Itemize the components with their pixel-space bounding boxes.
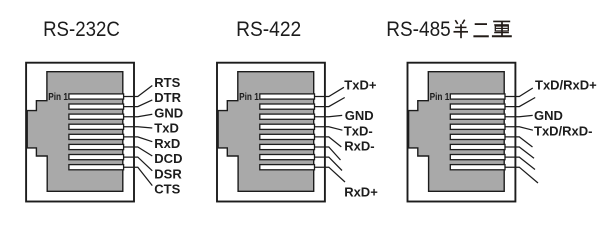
svg-text:RS-485: RS-485 [386, 16, 450, 41]
RS-422 pin 1 contact bar [260, 94, 315, 99]
RS-422 wire pin 7 [314, 157, 342, 170]
connector RS-232C jack body [27, 72, 123, 192]
svg-text:DCD: DCD [154, 151, 182, 166]
RS-422 pin 6 contact bar [260, 144, 315, 149]
title kanji JUU (fold) [492, 21, 512, 36]
svg-text:GND: GND [534, 108, 563, 123]
RS-422 pin 5 contact bar [260, 134, 315, 139]
connector RS-485 outer box [408, 63, 516, 202]
RS-232C wire pin 7 [123, 157, 152, 171]
RS-232C wire pin 3 [123, 114, 152, 117]
RS-232C wire pin 5 [123, 137, 152, 142]
RS-232C pin 2 contact bar [69, 104, 124, 109]
RS-232C pin 6 contact bar [69, 144, 124, 149]
RS-485 pin 3 contact bar [450, 114, 505, 119]
connector RS-485 jack body [409, 72, 505, 192]
svg-text:TxD-: TxD- [344, 123, 373, 138]
RS-485 wire pin 3 [505, 115, 533, 116]
svg-text:Pin 1: Pin 1 [430, 92, 450, 103]
RS-485 wire pin 5 [505, 137, 533, 147]
RS-232C wire pin 2 [123, 100, 152, 107]
RS-232C wire pin 1 [123, 86, 152, 97]
RS-422 wire pin 5 [314, 137, 341, 147]
RS-422 pin 3 contact bar [260, 114, 315, 119]
svg-text:DSR: DSR [154, 166, 182, 181]
svg-text:RTS: RTS [154, 75, 180, 90]
RS-422 wire pin 4 [314, 127, 342, 130]
svg-text:TxD/RxD+: TxD/RxD+ [535, 77, 597, 92]
RS-485 pin 1 contact bar [450, 94, 505, 99]
svg-text:GND: GND [345, 108, 374, 123]
svg-text:RxD+: RxD+ [344, 185, 378, 200]
RS-485 wire pin 1 [505, 88, 533, 97]
RS-485 pin 8 contact bar [450, 165, 505, 170]
connector RS-422 jack body [218, 72, 314, 192]
RS-485 wire pin 7 [505, 157, 535, 169]
connector RS-422 outer box [217, 63, 325, 202]
RS-422 wire pin 8 [314, 167, 345, 182]
svg-text:RxD: RxD [154, 136, 180, 151]
svg-text:CTS: CTS [154, 182, 180, 197]
RS-485 pin 5 contact bar [450, 134, 505, 139]
RS-422 wire pin 1 [314, 87, 344, 96]
RS-232C pin 3 contact bar [69, 114, 124, 119]
title kanji HAN (half) [454, 20, 469, 39]
RS-485 pin 6 contact bar [450, 144, 505, 149]
RS-422 pin 2 contact bar [260, 104, 315, 109]
title kanji NI (two) [473, 24, 488, 36]
RS-232C pin 1 contact bar [69, 94, 124, 99]
RS-232C pin 7 contact bar [69, 155, 124, 160]
svg-text:DTR: DTR [154, 90, 181, 105]
svg-text:Pin 1: Pin 1 [239, 92, 259, 103]
RS-422 wire pin 2 [314, 98, 344, 107]
RS-232C wire pin 6 [123, 147, 152, 156]
svg-text:RS-422: RS-422 [236, 16, 301, 41]
RS-485 wire pin 8 [505, 167, 538, 183]
RS-485 wire pin 2 [505, 98, 535, 107]
RS-485 pin 7 contact bar [450, 155, 505, 160]
RS-422 wire pin 3 [314, 115, 342, 116]
RS-485 pin 2 contact bar [450, 104, 505, 109]
svg-text:RxD-: RxD- [344, 139, 374, 154]
connector RS-232C outer box [26, 63, 134, 202]
svg-text:TxD+: TxD+ [344, 77, 377, 92]
RS-232C wire pin 8 [123, 167, 152, 185]
svg-text:RS-232C: RS-232C [43, 16, 120, 41]
RS-422 pin 8 contact bar [260, 165, 315, 170]
svg-text:TxD: TxD [154, 121, 179, 136]
svg-text:GND: GND [154, 105, 183, 120]
RS-422 pin 7 contact bar [260, 155, 315, 160]
RS-422 wire pin 6 [314, 147, 340, 160]
RS-485 wire pin 6 [505, 147, 534, 158]
RS-232C wire pin 4 [123, 127, 152, 128]
RS-232C pin 4 contact bar [69, 124, 124, 129]
RS-232C pin 5 contact bar [69, 134, 124, 139]
RS-485 wire pin 4 [505, 127, 533, 130]
RS-485 pin 4 contact bar [450, 124, 505, 129]
RS-422 pin 4 contact bar [260, 124, 315, 129]
RS-232C pin 8 contact bar [69, 165, 124, 170]
svg-text:TxD/RxD-: TxD/RxD- [534, 123, 593, 138]
svg-text:Pin 1: Pin 1 [48, 92, 68, 103]
